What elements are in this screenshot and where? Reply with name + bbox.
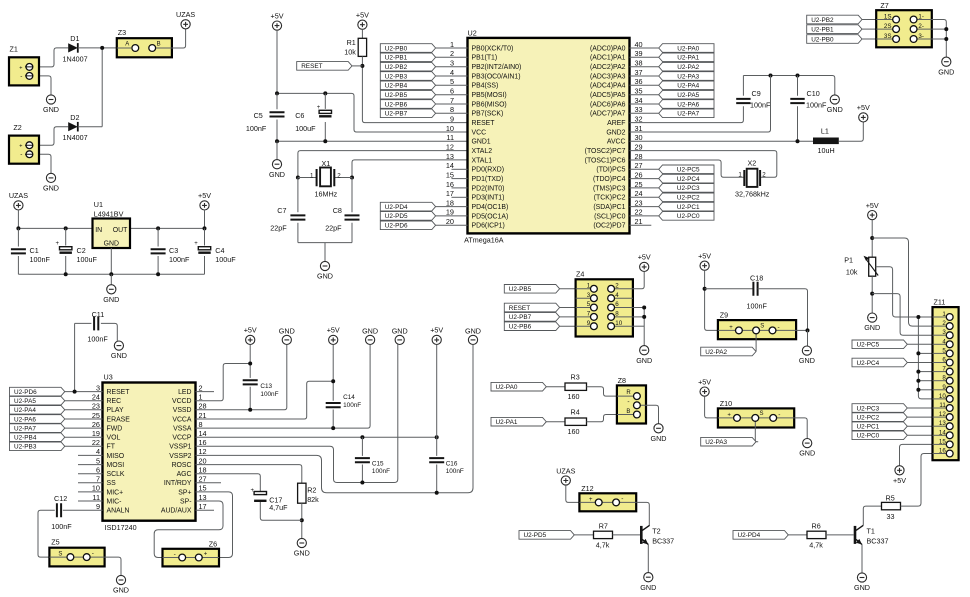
junction VCCD xyxy=(248,362,252,366)
wire to GND symbol xyxy=(110,274,112,284)
svg-text:22pF: 22pF xyxy=(270,224,287,233)
svg-text:VCCP: VCCP xyxy=(172,435,192,442)
svg-text:SS: SS xyxy=(107,480,117,487)
svg-text:10: 10 xyxy=(92,484,100,493)
svg-text:GND: GND xyxy=(827,105,843,114)
svg-text:RESET: RESET xyxy=(301,63,322,70)
svg-text:U2-PB6: U2-PB6 xyxy=(509,324,532,331)
svg-text:GND: GND xyxy=(294,549,310,558)
capacitor C17 4,7uF xyxy=(254,492,266,495)
ground Z1 xyxy=(46,95,55,104)
wire PC6 to X2 xyxy=(630,160,745,177)
flag U2-PB6 Z4 xyxy=(504,322,559,331)
svg-text:2: 2 xyxy=(337,172,341,179)
svg-text:GND: GND xyxy=(43,105,59,114)
svg-text:+: + xyxy=(729,325,733,331)
svg-text:-: - xyxy=(20,151,22,158)
resistor R1 xyxy=(358,38,366,56)
flag U2-PA0 xyxy=(491,382,546,391)
svg-text:U2-PB6: U2-PB6 xyxy=(385,101,408,108)
svg-text:28: 28 xyxy=(635,152,643,161)
svg-text:MIC+: MIC+ xyxy=(107,489,124,496)
svg-text:U2-PA7: U2-PA7 xyxy=(14,425,36,432)
ground rail5 xyxy=(395,335,404,344)
wire ground rail xyxy=(18,273,204,275)
svg-text:U2-PB2: U2-PB2 xyxy=(385,64,408,71)
svg-text:GND: GND xyxy=(636,356,652,365)
svg-text:16MHz: 16MHz xyxy=(315,190,338,199)
svg-text:PB6(MISO): PB6(MISO) xyxy=(472,101,507,108)
junction Z7 gnd xyxy=(944,27,948,31)
svg-text:100nF: 100nF xyxy=(806,101,827,110)
svg-text:+5V: +5V xyxy=(244,326,257,335)
svg-text:+: + xyxy=(204,551,208,557)
svg-text:C11: C11 xyxy=(92,310,105,319)
svg-text:22: 22 xyxy=(92,438,100,447)
svg-text:Z10: Z10 xyxy=(720,399,732,408)
svg-text:U2-PA2: U2-PA2 xyxy=(705,349,727,356)
svg-text:REC: REC xyxy=(107,398,122,405)
wire Z5 to GND xyxy=(105,557,121,575)
svg-text:+: + xyxy=(19,144,22,150)
svg-text:MIC-: MIC- xyxy=(107,498,122,505)
svg-text:27: 27 xyxy=(635,161,643,170)
svg-text:23: 23 xyxy=(635,198,643,207)
svg-text:(ADC2)PA2: (ADC2)PA2 xyxy=(590,64,626,71)
wire Z11 bus vertical xyxy=(918,317,932,399)
wire PC7 to X2 xyxy=(630,151,777,178)
wire Z9 minus to GND xyxy=(796,329,807,331)
svg-text:MOSI: MOSI xyxy=(107,462,125,469)
svg-text:14: 14 xyxy=(446,161,454,170)
svg-text:GND: GND xyxy=(651,434,667,443)
wire AGC to C17 xyxy=(196,474,261,492)
svg-text:SP-: SP- xyxy=(180,498,192,505)
wire Z7 pin3- xyxy=(932,38,947,40)
wire ROSC to R2 xyxy=(196,465,302,484)
svg-text:U2-PB7: U2-PB7 xyxy=(385,111,408,118)
svg-text:32,768kHz: 32,768kHz xyxy=(735,189,770,198)
svg-text:AUD/AUX: AUD/AUX xyxy=(161,508,192,515)
svg-text:B: B xyxy=(157,41,161,47)
svg-text:27: 27 xyxy=(199,475,207,484)
wire bus to pin7 xyxy=(918,371,932,373)
svg-text:6: 6 xyxy=(942,357,946,364)
svg-text:(TDI)PC5: (TDI)PC5 xyxy=(596,167,625,174)
svg-text:100uF: 100uF xyxy=(77,255,98,264)
svg-text:13: 13 xyxy=(939,420,946,427)
resistor R3 160 xyxy=(565,383,587,390)
ground Z8 xyxy=(654,424,663,433)
svg-text:VSSD: VSSD xyxy=(173,407,192,414)
svg-text:C14: C14 xyxy=(343,394,355,401)
svg-text:15: 15 xyxy=(939,438,946,445)
svg-text:17: 17 xyxy=(446,189,454,198)
svg-text:L1: L1 xyxy=(821,126,829,135)
wire Z11 pin15 to +5V xyxy=(900,444,933,465)
svg-text:2: 2 xyxy=(199,383,203,392)
svg-text:A: A xyxy=(125,41,129,47)
wire P1 wiper to Z11 pin1 xyxy=(876,267,933,317)
svg-text:5: 5 xyxy=(450,77,454,86)
svg-text:C15: C15 xyxy=(372,460,384,467)
svg-text:U2-PA4: U2-PA4 xyxy=(14,407,36,414)
svg-text:33: 33 xyxy=(635,105,643,114)
svg-text:+5V: +5V xyxy=(893,476,906,485)
svg-text:GND: GND xyxy=(111,351,127,360)
ground Z10 xyxy=(803,439,812,448)
capacitor C15 100nF xyxy=(361,437,363,456)
svg-text:3-: 3- xyxy=(918,33,924,40)
wire T1 collector to R5 xyxy=(863,506,881,525)
svg-text:2: 2 xyxy=(762,172,766,179)
svg-text:U2-PD4: U2-PD4 xyxy=(738,532,761,539)
svg-text:1N4007: 1N4007 xyxy=(63,54,88,63)
svg-text:Z12: Z12 xyxy=(581,484,593,493)
svg-text:+: + xyxy=(194,241,198,247)
svg-text:RESET: RESET xyxy=(107,389,131,396)
svg-text:29: 29 xyxy=(635,142,643,151)
svg-text:U2-PB5: U2-PB5 xyxy=(385,92,408,99)
wire Z3 to UZAS xyxy=(172,29,186,48)
power +5V P1 xyxy=(868,211,877,220)
wire T1 emitter to GND xyxy=(861,545,863,573)
wire X1 right xyxy=(334,177,352,179)
svg-text:PLAY: PLAY xyxy=(107,407,125,414)
svg-text:+5V: +5V xyxy=(198,191,211,200)
flag U2-PC1 Z11 xyxy=(852,422,907,431)
flag U2-PB0 xyxy=(807,35,862,44)
svg-text:100nF: 100nF xyxy=(169,255,190,264)
svg-text:VSSP1: VSSP1 xyxy=(169,444,191,451)
svg-text:GND2: GND2 xyxy=(606,129,625,136)
wire X1 left xyxy=(298,177,317,179)
ground C11 xyxy=(114,341,123,350)
svg-text:+: + xyxy=(589,497,593,503)
svg-text:GND: GND xyxy=(864,323,880,332)
capacitor C13 100nF xyxy=(243,380,258,384)
svg-text:3: 3 xyxy=(96,383,100,392)
connector Z2 xyxy=(9,136,39,164)
junction Z9 gnd xyxy=(806,328,810,332)
svg-text:4: 4 xyxy=(615,292,619,299)
wire Z1- to GND xyxy=(39,76,51,95)
svg-text:R4: R4 xyxy=(571,408,580,417)
wire VSSD to GND xyxy=(196,345,287,410)
svg-text:5: 5 xyxy=(96,456,100,465)
svg-text:LED: LED xyxy=(178,389,191,396)
svg-text:11: 11 xyxy=(92,493,100,502)
junction C14 bottom xyxy=(331,426,335,430)
svg-text:C2: C2 xyxy=(77,246,86,255)
svg-text:100uF: 100uF xyxy=(215,255,236,264)
svg-text:(TOSC1)PC6: (TOSC1)PC6 xyxy=(585,157,626,164)
svg-text:1: 1 xyxy=(942,311,946,318)
wire R7 to T2 base xyxy=(613,534,641,536)
ground Z5 xyxy=(116,575,125,584)
svg-text:1N4007: 1N4007 xyxy=(63,133,88,142)
svg-text:S: S xyxy=(760,411,764,417)
flag U2-PB5 Z4 xyxy=(504,285,559,294)
svg-text:(TCK)PC2: (TCK)PC2 xyxy=(594,195,626,202)
svg-text:38: 38 xyxy=(635,59,643,68)
wire XTAL2 xyxy=(298,151,468,178)
svg-text:RESET: RESET xyxy=(509,305,530,312)
svg-text:VSSP2: VSSP2 xyxy=(169,453,191,460)
capacitor C16 100nF xyxy=(429,458,444,462)
svg-text:ERASE: ERASE xyxy=(107,416,131,423)
svg-text:U2-PC4: U2-PC4 xyxy=(857,360,880,367)
wire R6 to T1 base xyxy=(826,534,854,536)
svg-text:14: 14 xyxy=(939,429,946,436)
svg-text:Z9: Z9 xyxy=(720,311,728,320)
svg-text:2-: 2- xyxy=(918,23,924,30)
capacitor C11 100nF xyxy=(75,322,92,324)
svg-text:Z4: Z4 xyxy=(576,270,584,279)
svg-text:10: 10 xyxy=(615,320,622,327)
wire T2 emitter to GND xyxy=(647,545,649,573)
ground X1 xyxy=(320,261,329,270)
svg-text:R2: R2 xyxy=(307,485,316,494)
transistor T1 BC337 xyxy=(854,526,857,544)
power +5V Z11 xyxy=(895,466,904,475)
svg-text:21: 21 xyxy=(635,217,643,226)
svg-text:8: 8 xyxy=(450,105,454,114)
svg-text:U2-PA2: U2-PA2 xyxy=(677,64,699,71)
svg-text:7: 7 xyxy=(96,475,100,484)
wire C17 to GND node xyxy=(260,502,302,520)
wire to GND C5 xyxy=(276,141,278,159)
flag U2-PC0 Z11 xyxy=(852,431,907,440)
capacitor C4 xyxy=(204,228,206,245)
svg-text:+: + xyxy=(56,241,60,247)
svg-text:GND: GND xyxy=(317,272,333,281)
svg-text:28: 28 xyxy=(199,402,207,411)
svg-text:33: 33 xyxy=(887,512,895,521)
svg-text:12: 12 xyxy=(199,447,207,456)
svg-text:1S: 1S xyxy=(884,14,892,21)
svg-text:D2: D2 xyxy=(70,113,79,122)
ground T2 xyxy=(644,573,653,582)
svg-text:SCLK: SCLK xyxy=(107,471,125,478)
svg-text:9: 9 xyxy=(942,384,946,391)
power +5V rail6 xyxy=(432,335,441,344)
svg-text:1-: 1- xyxy=(918,14,924,21)
wire output rail xyxy=(130,227,205,229)
svg-text:(ADC5)PA5: (ADC5)PA5 xyxy=(590,92,626,99)
svg-text:6: 6 xyxy=(615,301,619,308)
svg-text:160: 160 xyxy=(568,427,580,436)
svg-text:16: 16 xyxy=(939,448,946,455)
wire VSSP1 to GND xyxy=(196,345,398,483)
svg-text:(SCL)PC0: (SCL)PC0 xyxy=(594,213,626,220)
svg-text:FWD: FWD xyxy=(107,426,123,433)
wire Z2- to GND xyxy=(39,154,51,173)
wire +5V down C13 xyxy=(249,345,251,378)
svg-text:-: - xyxy=(621,495,623,502)
wire bus to pin8 xyxy=(918,380,932,382)
svg-text:+5V: +5V xyxy=(698,377,711,386)
flag U2-PD4 xyxy=(733,531,788,540)
wire input rail xyxy=(18,227,92,229)
svg-text:PD6(ICP1): PD6(ICP1) xyxy=(472,223,505,230)
wire Z10 S to flag xyxy=(755,428,758,442)
wire SP- to Z6 xyxy=(154,501,223,558)
svg-text:3: 3 xyxy=(942,329,946,336)
node A junction xyxy=(102,47,117,49)
wire UZAS to Z12 xyxy=(566,485,580,502)
svg-text:19: 19 xyxy=(446,208,454,217)
svg-text:R1: R1 xyxy=(347,38,356,47)
svg-text:PD3(INT1): PD3(INT1) xyxy=(472,195,505,202)
junction RESET xyxy=(360,64,364,68)
wire bus to pin5 xyxy=(918,352,932,354)
ground Z2 xyxy=(46,173,55,182)
svg-text:4,7k: 4,7k xyxy=(596,540,610,549)
junction C10 top xyxy=(796,74,800,78)
svg-text:(TMS)PC3: (TMS)PC3 xyxy=(593,185,626,192)
resistor R4 160 xyxy=(565,418,587,425)
svg-text:U2-PC0: U2-PC0 xyxy=(857,433,880,440)
svg-text:GND: GND xyxy=(104,240,119,247)
svg-text:+: + xyxy=(251,488,255,494)
svg-text:3: 3 xyxy=(587,292,591,299)
svg-text:2S: 2S xyxy=(884,23,892,30)
svg-text:11: 11 xyxy=(446,133,454,142)
svg-text:GND: GND xyxy=(392,327,408,336)
svg-text:(ADC7)PA7: (ADC7)PA7 xyxy=(590,111,626,118)
svg-text:100nF: 100nF xyxy=(446,468,464,475)
svg-text:160: 160 xyxy=(568,392,580,401)
svg-text:U2-PB0: U2-PB0 xyxy=(385,45,408,52)
junction C13 bottom xyxy=(248,408,252,412)
junction +5V branch xyxy=(870,236,874,240)
svg-text:GND: GND xyxy=(854,583,870,592)
svg-text:6: 6 xyxy=(96,466,100,475)
svg-text:INT/RDY: INT/RDY xyxy=(164,480,192,487)
wire VCC rail xyxy=(277,93,468,132)
svg-text:9: 9 xyxy=(450,114,454,123)
svg-text:40: 40 xyxy=(635,40,643,49)
svg-text:PB3(OC0/AIN1): PB3(OC0/AIN1) xyxy=(472,73,521,80)
wire R1 to RESET pin xyxy=(361,56,363,66)
svg-text:22pF: 22pF xyxy=(325,224,342,233)
svg-text:5: 5 xyxy=(587,301,591,308)
svg-text:P1: P1 xyxy=(844,255,853,264)
svg-text:GND: GND xyxy=(269,170,285,179)
svg-text:22: 22 xyxy=(635,208,643,217)
svg-text:1: 1 xyxy=(450,40,454,49)
svg-text:AREF: AREF xyxy=(607,120,625,127)
svg-text:GND: GND xyxy=(279,327,295,336)
svg-text:X2: X2 xyxy=(748,158,757,167)
svg-text:4,7k: 4,7k xyxy=(809,540,823,549)
svg-text:+5V: +5V xyxy=(866,201,879,210)
junction C5 top xyxy=(275,91,279,95)
svg-text:U2-PA5: U2-PA5 xyxy=(14,398,36,405)
svg-text:8: 8 xyxy=(942,375,946,382)
svg-text:+5V: +5V xyxy=(638,253,651,262)
svg-text:26: 26 xyxy=(92,420,100,429)
svg-text:R5: R5 xyxy=(886,493,895,502)
svg-text:U2-PA3: U2-PA3 xyxy=(677,73,699,80)
svg-text:1: 1 xyxy=(587,282,591,289)
capacitor C7 22pF xyxy=(290,215,305,219)
junction X1 pin1 xyxy=(296,176,300,180)
svg-text:24: 24 xyxy=(92,393,100,402)
junction C16 top xyxy=(435,435,439,439)
power +5V Z4 xyxy=(640,262,649,271)
svg-text:34: 34 xyxy=(635,96,643,105)
connector Z1 xyxy=(9,57,39,85)
flag U2-PB7 Z4 xyxy=(504,313,559,322)
svg-text:PB7(SCK): PB7(SCK) xyxy=(472,111,504,118)
svg-text:SP+: SP+ xyxy=(178,489,191,496)
svg-text:U2-PA4: U2-PA4 xyxy=(677,83,699,90)
svg-text:100uF: 100uF xyxy=(295,124,316,133)
svg-text:39: 39 xyxy=(635,49,643,58)
svg-text:U2-PB0: U2-PB0 xyxy=(811,36,834,43)
svg-text:C10: C10 xyxy=(807,89,820,98)
svg-text:GND: GND xyxy=(465,327,481,336)
svg-text:VCC: VCC xyxy=(472,129,487,136)
ground rail4 xyxy=(366,335,375,344)
capacitor C9 100nF xyxy=(736,99,750,103)
wire gnd to Z11 pin3 xyxy=(872,294,932,336)
wire P1 bottom to GND xyxy=(871,276,873,313)
wire Z4 pins 6 8 10 to GND xyxy=(633,308,644,346)
wire Z12 to T2 collector xyxy=(636,502,649,525)
svg-text:PD1(TXD): PD1(TXD) xyxy=(472,176,504,183)
svg-text:T1: T1 xyxy=(867,526,875,535)
wire D1 to node A xyxy=(78,47,102,49)
wire GND2 to rail xyxy=(630,76,771,133)
flag U2-PA3 xyxy=(701,437,756,446)
ground Z7 xyxy=(942,57,951,66)
svg-text:FT: FT xyxy=(107,444,116,451)
wire VCCD to +5V xyxy=(196,364,251,401)
svg-text:21: 21 xyxy=(199,411,207,420)
resistor R2 82k xyxy=(298,483,306,503)
svg-text:10k: 10k xyxy=(344,48,356,57)
svg-text:R6: R6 xyxy=(812,522,821,531)
svg-text:U2-PA3: U2-PA3 xyxy=(705,439,727,446)
svg-text:U2-PC3: U2-PC3 xyxy=(857,405,880,412)
svg-text:(TDO)PC4: (TDO)PC4 xyxy=(593,176,626,183)
svg-text:U2-PB4: U2-PB4 xyxy=(385,83,408,90)
junction GND2 rail xyxy=(769,74,773,78)
svg-text:C9: C9 xyxy=(752,89,761,98)
svg-text:U2-PC2: U2-PC2 xyxy=(857,414,880,421)
svg-text:10k: 10k xyxy=(846,268,858,277)
svg-text:AVCC: AVCC xyxy=(607,139,626,146)
svg-text:+: + xyxy=(19,65,22,71)
flag U2-PA2 xyxy=(701,347,756,356)
wire bus to pin9 xyxy=(918,389,932,391)
svg-text:2: 2 xyxy=(615,282,619,289)
capacitor C10 100nF xyxy=(797,76,799,96)
svg-text:XTAL1: XTAL1 xyxy=(472,157,493,164)
svg-text:4,7uF: 4,7uF xyxy=(269,503,288,512)
resistor R5 33 xyxy=(882,502,901,509)
flag U2-PC4 Z11 xyxy=(852,358,907,367)
power UZAS rail xyxy=(14,201,23,210)
wire Z9 S to flag xyxy=(754,339,756,351)
svg-text:82k: 82k xyxy=(307,495,319,504)
svg-text:VCCA: VCCA xyxy=(172,416,192,423)
svg-text:(TOSC2)PC7: (TOSC2)PC7 xyxy=(585,148,626,155)
svg-text:U2-PD5: U2-PD5 xyxy=(385,213,408,220)
